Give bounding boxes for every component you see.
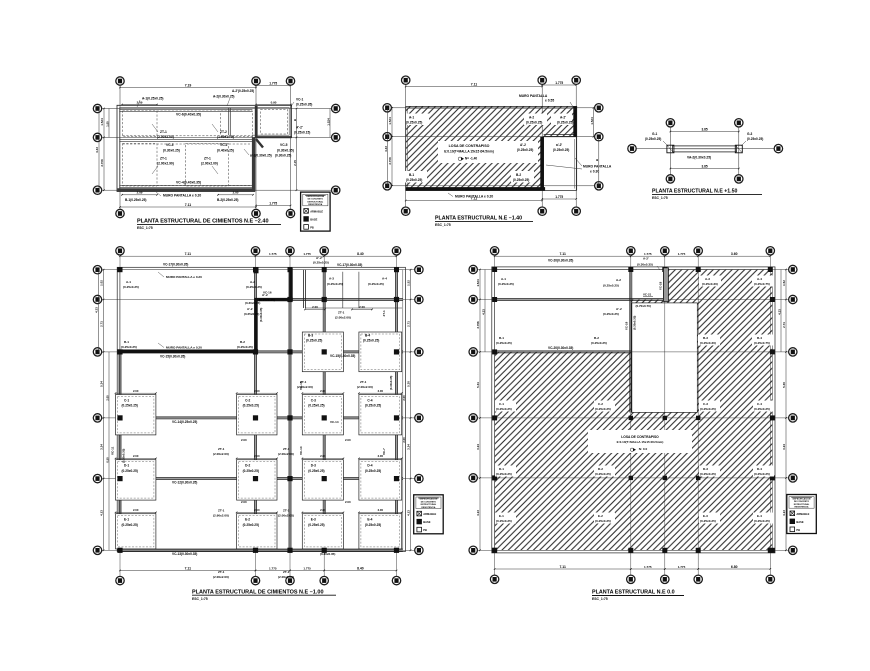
svg-text:A-2: A-2	[616, 278, 621, 282]
svg-text:ZT-1: ZT-1	[338, 311, 345, 315]
slab inner line plan2	[408, 108, 575, 188]
label A'-2 plan2	[515, 141, 538, 153]
svg-text:B-3: B-3	[703, 336, 708, 340]
zt labels CD plan4	[213, 438, 351, 456]
foundation outline plan1	[117, 105, 292, 191]
svg-text:MURO PANTALLA e 0.20: MURO PANTALLA e 0.20	[163, 194, 201, 198]
svg-text:(0.25x0.25): (0.25x0.25)	[603, 312, 619, 316]
label E-4 plan5	[753, 513, 774, 524]
svg-text:A′-2′: A′-2′	[316, 256, 323, 260]
label C-3 plan5	[699, 401, 720, 412]
footing D-3 plan4	[302, 460, 343, 500]
svg-text:3.706: 3.706	[388, 157, 392, 165]
svg-text:B-2: B-2	[594, 336, 599, 340]
left dim chain plan1	[95, 108, 110, 191]
dimension 2.00 footing C-3 plan4	[302, 389, 345, 394]
svg-text:DE CONCRETO: DE CONCRETO	[794, 501, 810, 503]
label VC-20 mid plan5	[548, 346, 573, 350]
label E-1 plan5	[495, 513, 516, 524]
label B-3 plan5	[698, 335, 720, 346]
svg-text:1.524: 1.524	[100, 118, 104, 126]
svg-text:(0.25x0.25): (0.25x0.25)	[595, 472, 611, 476]
interior beam lines plan1	[120, 108, 253, 188]
svg-text:B-2(0.25x0.25): B-2(0.25x0.25)	[217, 198, 238, 202]
dimension 2.00 footing E-4 plan4	[358, 508, 402, 513]
svg-text:A-3: A-3	[705, 277, 710, 281]
svg-text:3.706: 3.706	[476, 321, 480, 329]
footing B-3 plan4	[302, 332, 343, 372]
label a'-2 plan1	[244, 149, 272, 158]
zapata ZT-2 upper-right dashed plan1	[221, 111, 253, 136]
muro pantalla bottom thick plan2	[406, 187, 545, 191]
svg-text:RESISTENCIA: RESISTENCIA	[795, 506, 809, 509]
label 2.00 A' plan4	[304, 305, 326, 310]
label ZT-1 B3 plan4	[297, 380, 313, 389]
svg-text:ARMABLE: ARMABLE	[796, 512, 809, 516]
svg-text:(2.00x2.00): (2.00x2.00)	[201, 162, 218, 166]
svg-text:4.33: 4.33	[95, 147, 99, 153]
svg-text:8.40: 8.40	[357, 566, 364, 570]
beam labels row D plan4	[172, 481, 197, 485]
left dim chain plan4	[95, 269, 110, 551]
svg-text:B-1: B-1	[124, 340, 129, 344]
label VC-18 plan5	[659, 281, 663, 290]
label muro pantalla top plan4	[158, 272, 202, 279]
svg-text:DE CONCRETO: DE CONCRETO	[421, 501, 437, 503]
svg-text:B-4: B-4	[757, 336, 762, 340]
svg-text:(0.25x0.25): (0.25x0.25)	[498, 282, 514, 286]
grid bubbles right column plan4	[415, 266, 423, 555]
label VC-2 plan1	[217, 143, 234, 152]
dimension 2.00 bottom plan1	[217, 191, 254, 196]
svg-text:7.11: 7.11	[185, 203, 192, 207]
svg-text:4.13: 4.13	[407, 510, 411, 516]
svg-text:A′-2: A′-2	[247, 307, 253, 311]
svg-text:2.00: 2.00	[133, 454, 139, 458]
label VC-4 beam plan1	[176, 181, 201, 185]
label 0.70x0.70 plan5	[636, 304, 651, 308]
footing D-2 plan4	[237, 460, 277, 500]
muro pantalla notch vertical thick plan2	[540, 137, 543, 191]
zapata ZT-1 lower-left dashed plan1	[123, 144, 158, 187]
svg-text:VC-7: VC-7	[382, 448, 386, 455]
svg-text:D-3: D-3	[703, 467, 708, 471]
svg-text:5.30: 5.30	[407, 381, 411, 387]
svg-text:2.00: 2.00	[133, 508, 139, 512]
svg-text:2.00: 2.00	[241, 438, 247, 442]
svg-text:5.34: 5.34	[100, 381, 104, 387]
svg-text:LOSA DE CONTRAPISO: LOSA DE CONTRAPISO	[621, 435, 659, 439]
svg-text:2.00: 2.00	[345, 438, 351, 442]
label VA-2 plan3	[687, 156, 711, 160]
footing D-1 plan4	[116, 460, 156, 500]
svg-text:VC-17(0.30x0.35): VC-17(0.30x0.35)	[337, 263, 362, 267]
svg-text:(0.25x0.25): (0.25x0.25)	[645, 137, 661, 141]
svg-text:A′-2: A′-2	[616, 307, 622, 311]
svg-text:8.40: 8.40	[357, 252, 364, 256]
svg-text:(0.25x0.25): (0.25x0.25)	[553, 148, 569, 152]
zapata long dashed lines plan1	[123, 111, 253, 186]
label ZT-1 A'4 plan4	[382, 310, 386, 316]
svg-text:5.31: 5.31	[476, 382, 480, 388]
svg-text:PB: PB	[796, 528, 800, 532]
label ZT-1 lower-mid plan1	[201, 157, 218, 175]
muro pantalla notch horizontal plan2	[544, 135, 577, 137]
svg-text:ZT-1: ZT-1	[283, 509, 290, 513]
svg-text:1.775: 1.775	[303, 252, 311, 256]
label muro pantalla e0.30 plan2	[546, 158, 612, 174]
svg-text:A′-2′: A′-2′	[296, 126, 303, 130]
svg-text:ESC_1:75: ESC_1:75	[652, 196, 668, 200]
svg-text:ARMABLE: ARMABLE	[423, 512, 436, 516]
svg-text:PLANTA ESTRUCTURAL N.E –1.40: PLANTA ESTRUCTURAL N.E –1.40	[435, 216, 522, 222]
dimension 2.00 footing D-3 plan4	[302, 454, 345, 459]
svg-text:D-1: D-1	[124, 464, 129, 468]
svg-text:(0.30x0.35): (0.30x0.35)	[245, 301, 260, 305]
label A-2 plan2	[524, 114, 547, 126]
dimension 1.775 top plan2	[541, 81, 577, 86]
svg-text:D-2: D-2	[245, 464, 250, 468]
svg-text:G-3: G-3	[747, 132, 753, 136]
label A-2p plan1	[232, 89, 254, 93]
axis lines plan3	[636, 127, 774, 175]
svg-text:a′-2(0.30x0.25): a′-2(0.30x0.25)	[250, 154, 272, 158]
svg-text:A-1: A-1	[501, 277, 506, 281]
svg-text:RESISTENCIA: RESISTENCIA	[308, 203, 322, 206]
label VC-20 top plan5	[548, 259, 573, 263]
label A-3 plan4	[327, 277, 343, 287]
svg-text:C-1: C-1	[499, 402, 504, 406]
svg-text:E-2: E-2	[245, 518, 250, 522]
svg-text:DE CONCRETO: DE CONCRETO	[308, 199, 324, 201]
svg-text:ZT-1: ZT-1	[160, 157, 167, 161]
svg-text:A-2′: A-2′	[643, 257, 649, 261]
svg-text:(0.25x0.25): (0.25x0.25)	[368, 282, 384, 286]
svg-text:(0.25x0.25): (0.25x0.25)	[747, 137, 763, 141]
svg-text:1.775: 1.775	[269, 201, 277, 205]
slab hatch plan5	[495, 270, 773, 551]
svg-text:VC-6(0.40x0.35): VC-6(0.40x0.35)	[176, 113, 201, 117]
svg-text:(2.00x2.00): (2.00x2.00)	[278, 575, 294, 579]
svg-text:G-1: G-1	[652, 132, 658, 136]
svg-text:B-4: B-4	[365, 334, 370, 338]
svg-text:0.50: 0.50	[106, 457, 110, 463]
column G-1 section plan3	[667, 145, 674, 153]
grid bubbles right column plan2	[595, 104, 603, 190]
svg-text:(0.25x0.25): (0.25x0.25)	[496, 407, 512, 411]
svg-text:1.524: 1.524	[476, 279, 480, 287]
svg-text:E-3: E-3	[311, 518, 316, 522]
label A'-2 plan5	[603, 307, 622, 316]
svg-text:(0.40x0.25): (0.40x0.25)	[217, 148, 234, 152]
svg-text:(0.25x0.25): (0.25x0.25)	[595, 519, 611, 523]
grid bubbles left column plan1	[93, 104, 101, 194]
svg-text:ESC_1:75: ESC_1:75	[435, 223, 451, 227]
label ZT-1 upper plan1	[152, 124, 174, 139]
svg-text:0.90: 0.90	[271, 100, 277, 104]
svg-text:4.13: 4.13	[782, 510, 786, 516]
label VC-3 plan1	[163, 143, 180, 152]
label C-2 plan5	[594, 401, 615, 412]
label A-2 plan5	[603, 278, 621, 288]
svg-text:ESTRUCTURAL: ESTRUCTURAL	[421, 503, 437, 506]
svg-text:D-1: D-1	[499, 467, 504, 471]
svg-text:(0.25x0.25): (0.25x0.25)	[754, 519, 770, 523]
beam labels row C plan4	[172, 420, 339, 424]
zt labels E bottom plan4	[213, 570, 294, 579]
svg-text:(2.00x2.00): (2.00x2.00)	[278, 514, 294, 518]
label B-2 plan5	[591, 336, 607, 345]
svg-text:(0.25x0.25): (0.25x0.25)	[122, 404, 138, 408]
label A-1 plan4	[123, 280, 139, 289]
svg-text:(0.25x0.25): (0.25x0.25)	[496, 519, 512, 523]
svg-text:(0.25x0.25): (0.25x0.25)	[306, 339, 322, 343]
svg-text:(2.00x2.90): (2.00x2.90)	[157, 162, 174, 166]
svg-text:(0.25x0.25): (0.25x0.25)	[122, 523, 138, 527]
label C-1 plan5	[495, 401, 516, 412]
label A-3 plan5	[699, 276, 721, 287]
svg-text:1.775: 1.775	[269, 81, 277, 85]
svg-text:(0.25x0.25): (0.25x0.25)	[363, 339, 379, 343]
svg-text:2.71: 2.71	[407, 321, 411, 327]
svg-text:VC-21: VC-21	[643, 293, 652, 297]
svg-text:MURO PANTALLA e 0.20: MURO PANTALLA e 0.20	[166, 275, 202, 279]
label A-1 plan1	[137, 97, 163, 108]
svg-text:(0.25x0.25): (0.25x0.25)	[122, 469, 138, 473]
svg-text:(0.30x0.35): (0.30x0.35)	[259, 308, 263, 322]
svg-text:(0.30x0.35): (0.30x0.35)	[633, 316, 637, 330]
svg-text:7.11: 7.11	[185, 566, 192, 570]
svg-text:7.11: 7.11	[471, 82, 478, 86]
svg-text:7.11: 7.11	[471, 196, 478, 200]
svg-text:2.09: 2.09	[137, 191, 143, 195]
svg-text:4.33: 4.33	[778, 309, 782, 315]
svg-text:2.00: 2.00	[345, 500, 351, 504]
interior beams plan5	[495, 270, 666, 413]
svg-text:3.85: 3.85	[701, 127, 707, 131]
label VC-5 plan1	[275, 143, 294, 157]
grid bubbles top row plan2	[402, 76, 581, 84]
left dim chain plan5	[476, 269, 486, 551]
svg-text:2.71: 2.71	[100, 321, 104, 327]
svg-text:(0.25x0.25): (0.25x0.25)	[365, 469, 381, 473]
svg-text:(0.25x0.25): (0.25x0.25)	[517, 148, 533, 152]
label B-2 plan2	[511, 171, 534, 183]
label B-1 plan2	[404, 171, 427, 183]
svg-text:(0.25x0.25): (0.25x0.25)	[259, 298, 275, 302]
svg-text:A-2: A-2	[250, 280, 255, 284]
svg-text:(0.25x0.25): (0.25x0.25)	[406, 121, 422, 125]
label B-1 plan4	[121, 340, 137, 349]
footing C-2 plan4	[237, 395, 277, 435]
svg-text:(2.00x2.00): (2.00x2.00)	[357, 385, 373, 389]
svg-text:(0.25x0.25): (0.25x0.25)	[327, 282, 343, 286]
svg-text:(0.25x0.25): (0.25x0.25)	[754, 472, 770, 476]
legend box plan1	[301, 192, 331, 231]
label A-2prime above plan5	[637, 257, 660, 271]
svg-text:E-1: E-1	[124, 518, 129, 522]
svg-text:B-2: B-2	[240, 340, 245, 344]
svg-text:4.33: 4.33	[384, 146, 388, 152]
svg-text:6.80: 6.80	[731, 565, 738, 569]
grid bubbles bottom row plan5	[490, 575, 774, 583]
svg-text:(0.30x0.25): (0.30x0.25)	[275, 154, 291, 158]
svg-text:ZT-1: ZT-1	[283, 447, 290, 451]
svg-text:N= -1.40: N= -1.40	[465, 157, 478, 161]
svg-text:RESISTENCIA: RESISTENCIA	[421, 506, 435, 509]
legend box plan5	[787, 495, 817, 534]
grid bubbles left column plan4	[93, 266, 101, 555]
svg-text:(0.25x0.25): (0.25x0.25)	[243, 523, 259, 527]
title plan2	[435, 216, 533, 228]
svg-text:1.524: 1.524	[590, 117, 594, 125]
svg-text:3.24: 3.24	[782, 444, 786, 450]
svg-text:2.15: 2.15	[293, 160, 297, 166]
svg-text:VC-13(0.30x0.35): VC-13(0.30x0.35)	[172, 552, 197, 556]
label D-4 plan5	[753, 466, 774, 477]
svg-text:E-4: E-4	[367, 518, 372, 522]
svg-text:D-4: D-4	[367, 464, 372, 468]
svg-text:(0.25x0.25): (0.25x0.25)	[406, 178, 422, 182]
svg-text:2.00: 2.00	[320, 508, 326, 512]
svg-text:VC-12(0.30x0.35): VC-12(0.30x0.35)	[172, 481, 197, 485]
svg-text:1.02: 1.02	[100, 280, 104, 286]
footing C-4 plan4	[359, 395, 402, 435]
label E-3 plan5	[699, 513, 720, 524]
svg-text:(0.25x0.75): (0.25x0.75)	[754, 282, 770, 286]
muro pantalla Z wall plan4	[120, 267, 293, 352]
footing C-3 plan4	[302, 395, 343, 435]
svg-text:7.11: 7.11	[559, 252, 566, 256]
svg-text:A-4: A-4	[382, 277, 387, 281]
svg-text:(0.25x0.25): (0.25x0.25)	[513, 178, 529, 182]
muro pantalla wall plan5	[663, 268, 668, 302]
label G-3 plan3	[741, 132, 763, 146]
svg-text:1.52: 1.52	[407, 280, 411, 286]
footing E-3 plan4	[302, 514, 343, 549]
grid bubbles plan3	[628, 119, 783, 183]
top band verticals right plan4	[304, 270, 403, 308]
svg-text:PLANTA ESTRUCTURAL N.E 0.0: PLANTA ESTRUCTURAL N.E 0.0	[592, 590, 675, 596]
axis lines plan1	[102, 85, 332, 209]
grid bubbles left column plan5	[469, 265, 477, 554]
svg-text:VC-19: VC-19	[625, 321, 629, 330]
right dim chain plan2	[590, 107, 599, 186]
label VC-17 plan4	[163, 263, 188, 267]
dimension 3.85 bottom plan3	[670, 164, 740, 169]
footing D-4 plan4	[359, 460, 402, 500]
svg-text:(0.25x0.25): (0.25x0.25)	[313, 261, 329, 265]
dimension 2.00 footing C-2 plan4	[236, 389, 278, 394]
text mask losa plan2	[438, 141, 538, 163]
label A-1 plan5	[498, 277, 514, 286]
svg-text:2.00: 2.00	[106, 395, 110, 401]
dimension 2.09 bottom plan1	[121, 191, 158, 196]
column G-3 section plan3	[735, 145, 742, 153]
svg-text:2.00: 2.00	[254, 508, 260, 512]
label E-2 plan5	[594, 513, 615, 524]
svg-text:C-1: C-1	[124, 399, 129, 403]
perimeter beams plan4	[119, 270, 403, 552]
label B-2 plan1	[217, 198, 238, 202]
zt labels DE plan4	[213, 500, 351, 518]
svg-text:VC-11: VC-11	[111, 446, 115, 455]
svg-text:VC-14: VC-14	[330, 420, 339, 424]
svg-text:1.775: 1.775	[269, 566, 277, 570]
label VC-15b plan4	[330, 354, 355, 358]
svg-text:D-2: D-2	[598, 467, 603, 471]
dimension 1.775 bottom plan1	[255, 201, 291, 206]
label A-2 plan4	[246, 280, 262, 289]
dimension top plan4	[119, 252, 397, 257]
svg-text:VC-20(0.30x0.35): VC-20(0.30x0.35)	[548, 346, 573, 350]
opening border plan5	[631, 303, 697, 413]
svg-text:A-2: A-2	[529, 116, 534, 120]
dimension 0.90 plan1	[255, 100, 292, 105]
svg-text:VC-16: VC-16	[263, 291, 272, 295]
svg-text:(0.30x0.35): (0.30x0.35)	[320, 552, 335, 556]
svg-text:7.19: 7.19	[185, 83, 192, 87]
label A-4 plan5	[752, 276, 774, 287]
svg-text:E:0.10(T=MALLA 15x15 Ø4.5mm): E:0.10(T=MALLA 15x15 Ø4.5mm)	[444, 149, 494, 153]
svg-text:3.85: 3.85	[701, 164, 707, 168]
svg-text:e 0.55: e 0.55	[545, 99, 554, 103]
svg-text:(0.30x0.35): (0.30x0.35)	[637, 262, 653, 266]
dimension 2.00 footing D-2 plan4	[236, 454, 278, 459]
label A'-2' plan1	[294, 126, 310, 135]
label ZT-2 upper plan1	[212, 124, 234, 139]
svg-text:D-4: D-4	[757, 467, 762, 471]
svg-text:(1.95x1.75): (1.95x1.75)	[217, 135, 234, 139]
dimension 1.775 top plan1	[255, 81, 291, 86]
svg-text:(0.25x0.25): (0.25x0.25)	[308, 469, 324, 473]
svg-text:E-1: E-1	[499, 514, 504, 518]
svg-text:(0.70x0.70): (0.70x0.70)	[636, 304, 651, 308]
svg-text:VC-13: VC-13	[299, 446, 303, 455]
svg-text:(0.25x0.25): (0.25x0.25)	[595, 407, 611, 411]
svg-text:2.71: 2.71	[782, 322, 786, 328]
svg-text:(0.25x0.25): (0.25x0.25)	[496, 341, 512, 345]
label VC-17b plan4	[337, 263, 362, 267]
svg-text:1.524: 1.524	[327, 118, 331, 126]
svg-text:ZT-1: ZT-1	[218, 509, 225, 513]
svg-text:BASE: BASE	[310, 217, 317, 221]
svg-text:(0.25x0.25): (0.25x0.25)	[246, 285, 262, 289]
svg-text:(0.25x0.25): (0.25x0.25)	[754, 407, 770, 411]
svg-text:2.00: 2.00	[402, 395, 406, 401]
svg-text:PB: PB	[310, 225, 314, 229]
svg-text:(2.00x2.00): (2.00x2.00)	[213, 452, 229, 456]
vertical beam labels plan4	[111, 376, 394, 463]
svg-text:1.775: 1.775	[678, 252, 686, 256]
svg-text:2.00: 2.00	[359, 305, 365, 309]
svg-text:1.775: 1.775	[644, 252, 652, 256]
label B-2 plan4	[237, 340, 253, 349]
svg-text:ESTRUCTURAL: ESTRUCTURAL	[794, 503, 810, 506]
label A-2 plan1	[213, 95, 234, 107]
svg-text:VC-2: VC-2	[220, 143, 228, 147]
svg-text:(0.25x0.25): (0.25x0.25)	[603, 284, 619, 288]
svg-text:C-4: C-4	[367, 399, 372, 403]
svg-text:4.13: 4.13	[476, 510, 480, 516]
svg-text:VA-2(0.30x0.25): VA-2(0.30x0.25)	[687, 156, 711, 160]
svg-text:E:0.10(T=MALLA 15x15 Ø4.5mm): E:0.10(T=MALLA 15x15 Ø4.5mm)	[617, 440, 664, 444]
svg-text:B-1: B-1	[499, 336, 504, 340]
beam VA-2 plan3	[673, 146, 737, 152]
svg-text:2.00: 2.00	[378, 389, 384, 393]
svg-text:2.00: 2.00	[241, 500, 247, 504]
svg-text:VC-15(0.30x0.35): VC-15(0.30x0.35)	[330, 354, 355, 358]
